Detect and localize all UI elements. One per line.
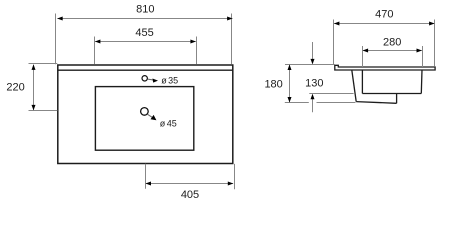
countertop slab profile [335,65,435,70]
sump bottom extension line left segment [285,102,309,104]
dimension 455 extension line right [196,37,198,65]
basin front edge double line [58,69,232,71]
dimension 470 arrowhead right [429,22,435,26]
svg-text:220: 220 [6,82,24,94]
dimension 455 arrowhead right [190,40,196,44]
dimension 180 arrowhead top [288,65,292,71]
dimension 455 line [95,41,196,43]
dimension 470 extension line right [434,20,436,67]
dimension 130 top tail line [312,42,314,64]
dimension 470 extension line left [333,20,335,66]
dimension 180 arrowhead bottom [288,97,292,103]
faucet hole circle [142,76,147,81]
dimension 810 arrowhead left [57,17,63,21]
svg-text:ø35: ø35 [161,75,178,85]
side top extension line [285,64,335,66]
svg-text:280: 280 [383,37,401,49]
dimension 220 extension line bottom [29,110,58,112]
dimension 810 extension line left [55,14,57,65]
sump bottom [356,102,396,104]
bowl right wall [420,70,423,94]
drain hole circle [141,108,149,116]
dimension 810 line [57,18,232,20]
dimension 810 arrowhead right [227,17,233,21]
dimension 405 extension line left [145,164,147,189]
drain hole leader line [147,114,152,117]
dimension 280 extension line right [422,46,424,67]
bowl bottom extension line [309,93,353,95]
dimension 130 arrowhead up [311,94,315,100]
bowl bottom [362,93,421,95]
dimension 180 line [289,65,291,103]
svg-text:180: 180 [264,79,282,91]
basin outer rectangle [58,65,233,164]
svg-text:470: 470 [375,9,393,21]
bowl inner left wall [361,70,363,94]
dimension 280 arrowhead left [363,49,369,53]
dimension 405 extension line right [234,164,236,189]
dimension 470 arrowhead left [334,22,340,26]
dimension 280 arrowhead right [417,49,423,53]
svg-text:130: 130 [305,78,323,90]
dimension 810 extension line right [231,14,233,65]
dimension 130 arrowhead down [311,59,315,65]
svg-text:ø45: ø45 [160,119,177,129]
bowl outer left wall [352,70,356,102]
svg-text:405: 405 [181,189,199,201]
dimension 470 line [334,23,434,25]
dimension 405 arrowhead left [146,182,152,186]
dimension 220 arrowhead bottom [32,105,36,111]
svg-text:810: 810 [136,3,154,15]
dimension 220 arrowhead top [32,64,36,70]
bowl inner rectangle [95,87,193,151]
faucet leader arrowhead [153,79,159,83]
dimension 220 line [33,65,35,111]
dimension 405 line [146,183,233,185]
dimension 280 line [363,50,422,52]
drain leader arrowhead [151,115,157,120]
dimension 130 bottom tail line [312,95,314,112]
dimension 405 arrowhead right [228,182,234,186]
dimension 220 extension line top [29,63,58,65]
svg-text:455: 455 [135,27,153,39]
faucet hole leader line [148,78,153,81]
dimension 455 arrowhead left [95,40,101,44]
dimension 280 extension line left [362,46,364,67]
sump bottom extension line right segment [317,102,356,104]
sump right wall [396,94,398,104]
dimension 455 extension line left [94,37,96,65]
